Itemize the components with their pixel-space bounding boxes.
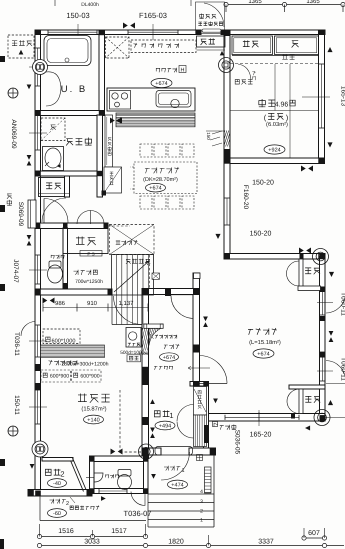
- svg-text:4: 4: [200, 489, 203, 495]
- washbasin faucet tri: [57, 164, 61, 168]
- window 150-11 office left: [37, 390, 39, 424]
- top dim circle 1: [224, 2, 228, 6]
- left window tick y270: [29, 269, 47, 271]
- bottom dim line upper: [40, 536, 146, 538]
- label toilet1: [51, 255, 64, 259]
- lower dim circle 145.5: [143, 543, 147, 547]
- label genkan2: [45, 469, 60, 476]
- scan edge mark 3: [0, 284, 5, 291]
- label tobukuro: [235, 80, 252, 85]
- svg-text:S036-05: S036-05: [234, 430, 241, 455]
- wall post 17: [99, 110, 105, 115]
- round post living SE: [314, 410, 330, 426]
- label jiita: [282, 54, 294, 59]
- svg-text:+674: +674: [149, 186, 161, 192]
- wall post 25: [165, 289, 171, 296]
- window AN069-09 washroom left end tick b: [35, 149, 40, 151]
- porch step 3: [148, 510, 214, 512]
- wall post 24: [63, 283, 68, 290]
- level oval hall +674: [160, 353, 179, 361]
- svg-text:+674: +674: [155, 81, 167, 87]
- stair treads lower flight: [117, 295, 149, 325]
- left window tick y133: [29, 132, 47, 134]
- svg-text:T036-11: T036-11: [13, 332, 20, 356]
- corridor-toilet1 wall: [35, 223, 108, 229]
- tri genkan2: [30, 464, 35, 469]
- left window tick y341: [29, 340, 47, 342]
- wall post 3: [196, 30, 201, 35]
- window S036-05 living south end tick b: [298, 415, 300, 420]
- svg-text:165-20: 165-20: [250, 432, 272, 439]
- lower dim circle 39.5: [37, 543, 41, 547]
- genkan shoe cabinet striped: [194, 415, 207, 447]
- office dim pair arrows: [43, 298, 55, 304]
- toilet2 north wall: [90, 456, 149, 462]
- dog zone diagonals: [110, 225, 155, 255]
- cupboard dashed outline: [131, 40, 196, 53]
- pair arrows washitsu south: [301, 166, 313, 172]
- sliding door band washroom-dining: [105, 115, 113, 167]
- wall post 20: [35, 223, 40, 229]
- gas meter symbol top: [33, 60, 48, 75]
- bath east wall: [99, 30, 105, 115]
- office dim tick 108: [107, 304, 109, 312]
- wall post 23: [35, 289, 41, 295]
- office north wall west part: [36, 289, 112, 295]
- solid wall chunk office-genkan: [142, 417, 149, 425]
- office counter hatched band: [41, 345, 105, 358]
- top window tick a: [77, 24, 79, 40]
- tri genkan1 c: [150, 433, 155, 438]
- genkan south wall east: [189, 448, 216, 455]
- scan edge mark 2: [0, 205, 5, 212]
- tri toilet1 left a: [27, 235, 32, 240]
- toilet2 east wall: [144, 456, 149, 494]
- bath door fold: [46, 72, 61, 106]
- wall post 14: [320, 316, 326, 321]
- wall post 2: [99, 30, 105, 35]
- wall post 15: [320, 352, 326, 358]
- tri monoire BR right: [328, 400, 333, 405]
- svg-text:910: 910: [87, 300, 98, 307]
- small sq porch: [197, 455, 203, 461]
- label jo: [290, 100, 295, 106]
- label toko: [292, 41, 299, 48]
- monoire1 bottom line: [39, 193, 70, 195]
- tri hall wall a: [203, 317, 208, 322]
- svg-text:1517: 1517: [111, 528, 127, 535]
- window bath left end tick b: [35, 85, 40, 87]
- wall post 34: [224, 149, 230, 159]
- window 150-11 office left end tick a: [35, 389, 40, 391]
- label genkan1: [154, 410, 169, 417]
- vent fan circle office: [8, 426, 18, 436]
- office dim tick 43: [42, 304, 44, 312]
- shuno2 box: [63, 229, 108, 254]
- tri monoire TR right: [329, 272, 334, 277]
- label desk1 tsukue: [46, 337, 50, 342]
- window F165-03 kitchen top end tick a: [127, 30, 129, 35]
- washroom east wall: [97, 115, 103, 197]
- wall post 5: [224, 30, 230, 36]
- genkan east wall: [204, 386, 209, 452]
- lower dim circle 324.5: [322, 543, 326, 547]
- label monoire1: [46, 183, 61, 189]
- top tick a: [54, 0, 56, 6]
- level oval porch1 +474: [168, 480, 188, 489]
- 607 circle b: [322, 536, 326, 540]
- living north wall: [224, 254, 325, 260]
- top dim circle 3: [341, 2, 345, 6]
- svg-text:4.96: 4.96: [275, 102, 289, 109]
- tatami line v2: [274, 64, 276, 111]
- svg-text:150-11: 150-11: [13, 395, 20, 415]
- solid chunk hall wall: [194, 345, 200, 353]
- label monoire BR: [305, 396, 320, 402]
- label onsuiki: [12, 40, 32, 46]
- wall post 22: [104, 223, 109, 229]
- label porch1: [164, 466, 180, 471]
- tri genkan1 a: [150, 399, 155, 404]
- window F165-03 kitchen top: [128, 31, 178, 33]
- label porch2: [50, 499, 66, 504]
- level oval dining +674: [146, 183, 166, 192]
- desk dashed 600x900 a: [41, 370, 71, 382]
- svg-text:3: 3: [200, 499, 203, 505]
- tri genkan cab: [213, 399, 218, 404]
- label pipe space: [74, 270, 98, 275]
- washroom south wall: [35, 171, 103, 176]
- terrace door T036-11 office left end tick b: [35, 356, 40, 358]
- label washing mark: [50, 125, 55, 130]
- riser 208.5: [208, 535, 210, 546]
- wall post 16: [35, 110, 41, 115]
- monoire1 door arc: [42, 198, 66, 222]
- meter symbol genkan2: [32, 441, 48, 457]
- level oval kitchen +674: [151, 78, 172, 87]
- refrigerator dashed box: [106, 37, 130, 58]
- wall post 43: [210, 448, 216, 455]
- label kitchen: [156, 68, 176, 73]
- stair lower left edge: [111, 295, 113, 325]
- window bath left end tick a: [35, 47, 40, 49]
- shuno2 bottom marks: [80, 251, 102, 257]
- label monoire TR: [305, 268, 320, 274]
- tri near F160 window: [215, 234, 220, 239]
- tri living south left: [305, 425, 310, 430]
- kitchen sink: [156, 91, 191, 108]
- window S036-05 living south: [225, 416, 299, 418]
- arc lower T060-11: [326, 361, 345, 381]
- office dim tick 148: [147, 304, 149, 312]
- wall post 41: [87, 489, 93, 496]
- wall post 27: [36, 383, 41, 390]
- svg-text:150: 150: [206, 132, 211, 140]
- round post genkan SW: [139, 444, 154, 459]
- porch1 right edge: [213, 450, 215, 527]
- toilet2 door arc: [131, 492, 145, 506]
- kon-pillar tiny box: [213, 422, 218, 427]
- washitsu west wall: [224, 30, 230, 258]
- label office counter a: [49, 360, 77, 365]
- label hall: [164, 344, 179, 349]
- svg-text:T036-07: T036-07: [124, 509, 152, 518]
- svg-text:(15.87m²): (15.87m²): [81, 406, 106, 413]
- dim leader 150: [206, 130, 224, 132]
- stair lower bottom edge: [112, 324, 142, 326]
- window F160-20 washitsu west end tick b: [224, 224, 229, 226]
- wall post 29: [142, 288, 149, 295]
- H mark kitchen: [179, 66, 186, 74]
- window F160-20 washitsu west end tick a: [224, 197, 229, 199]
- svg-text:165-13: 165-13: [340, 86, 345, 107]
- genkan shoe cabinet upper box: [194, 387, 207, 416]
- kon leader: [214, 423, 218, 427]
- office-hall divider wall: [142, 289, 149, 459]
- wall post 35: [224, 30, 230, 36]
- label demado: [7, 194, 12, 206]
- dining bench dashes: [130, 167, 134, 189]
- bathtub: [44, 36, 91, 66]
- shoe cab door arc top: [177, 405, 194, 422]
- window S036-05 living south end tick a: [224, 415, 226, 420]
- hall-living wall: [193, 273, 200, 385]
- window AN069-09 washroom left: [37, 115, 39, 150]
- porch2 bottom edge: [40, 520, 146, 522]
- toilet2 west wall: [90, 456, 95, 494]
- svg-text:T060-11: T060-11: [340, 292, 345, 316]
- svg-text:H: H: [181, 67, 185, 73]
- pair arrows toilet2 top: [111, 449, 123, 455]
- terrace door T036-11 office left: [37, 325, 39, 357]
- monoire TR bottom wall: [298, 286, 321, 291]
- monoire1 box: [39, 178, 70, 197]
- svg-text:150-20: 150-20: [252, 180, 274, 187]
- svg-text:600*1000: 600*1000: [52, 339, 76, 345]
- level oval office +140: [84, 415, 104, 424]
- tri toilet2: [101, 496, 106, 501]
- tri below onsuiki: [19, 50, 24, 55]
- label cupboard: [133, 43, 178, 48]
- svg-text:1820: 1820: [168, 539, 184, 546]
- door hall-living arc: [200, 356, 228, 384]
- genkan2 top wall: [42, 458, 73, 462]
- counter table hatched: [116, 113, 195, 127]
- terrace door arc office left: [21, 322, 36, 337]
- svg-text:-60: -60: [53, 511, 61, 517]
- top dim circle 2: [282, 2, 286, 6]
- 607 riser a: [303, 528, 305, 538]
- wall post 32: [193, 381, 200, 386]
- window F165-03 kitchen top end tick b: [177, 30, 179, 35]
- 607 riser b: [324, 528, 326, 538]
- washing machine diagonal: [41, 118, 65, 141]
- label senmenjo: [66, 138, 91, 146]
- svg-text:F165-03: F165-03: [139, 11, 167, 20]
- level oval porch2 -60: [48, 509, 67, 518]
- terrace door T060-11 lower living right: [321, 352, 323, 381]
- tokonoma inner: [276, 38, 316, 53]
- svg-text:+674: +674: [163, 355, 175, 361]
- solid post living south: [291, 414, 295, 419]
- pair arrows counter: [109, 118, 121, 124]
- dining chairs dashed: [140, 144, 194, 209]
- hatched wall segment washitsu west: [218, 131, 236, 147]
- backdoor sill bar: [202, 29, 221, 32]
- top dim line: [226, 4, 343, 6]
- tatami line h: [230, 110, 319, 112]
- label katteguchi sub: [198, 22, 222, 26]
- stair treads: [117, 255, 149, 296]
- svg-text:3337: 3337: [258, 539, 274, 546]
- svg-text:1: 1: [181, 468, 184, 474]
- hatch marks left of wall: [210, 131, 222, 146]
- round post kitchen-washitsu: [219, 58, 234, 73]
- tri washroom left a: [27, 155, 32, 160]
- scan edge mark 4: [0, 459, 5, 466]
- window J074-07 toilet1 left end tick a: [35, 254, 40, 256]
- label shuno2: [76, 236, 96, 245]
- washitsu south wall: [224, 158, 325, 164]
- backdoor vestibule outline: [196, 2, 225, 34]
- solid wall chunk genkan east: [204, 425, 209, 443]
- terrace door T060-11 upper living right end tick b: [320, 314, 325, 316]
- backdoor katteguchi arc: [204, 3, 224, 27]
- scan edge mark 1: [0, 56, 5, 62]
- top tick b: [190, 0, 192, 6]
- svg-text:700w*1250h: 700w*1250h: [75, 279, 103, 285]
- svg-text:2: 2: [200, 509, 203, 515]
- wall post 31: [142, 367, 149, 385]
- washing machine dashed: [41, 118, 65, 141]
- porch step 2: [148, 502, 214, 504]
- svg-text:+140: +140: [87, 417, 99, 423]
- window AN069-09 washroom left end tick a: [35, 114, 40, 116]
- ext line monoire BR: [326, 383, 345, 385]
- scan edge mark 5: [0, 539, 4, 549]
- svg-text:S069-09: S069-09: [17, 202, 24, 227]
- corridor dashed opening: [108, 225, 130, 227]
- window 165-13 washitsu right end tick b: [319, 127, 324, 129]
- pair arrows top wall: [123, 23, 135, 29]
- lower dim circle 208.5: [206, 543, 210, 547]
- porch step 4: [148, 519, 214, 521]
- closet bottom wall: [232, 55, 319, 57]
- svg-text:DL400h: DL400h: [81, 2, 99, 8]
- slide arrow hall-living: [188, 366, 210, 370]
- porch left edge: [147, 455, 149, 527]
- top dim riser 1: [225, 5, 227, 13]
- store sash leader: [70, 497, 75, 503]
- window 165-13 washitsu right end tick a: [319, 63, 324, 65]
- stairs box: [112, 255, 154, 296]
- window 150-03 bath top end tick a: [47, 30, 49, 35]
- label hall counter: [155, 335, 177, 339]
- wall post 6: [318, 30, 324, 35]
- label toilet2: [106, 474, 119, 478]
- wall post 1: [35, 30, 41, 35]
- svg-text:150-03: 150-03: [66, 11, 89, 20]
- tatami line v: [289, 64, 291, 158]
- wall post 19: [97, 171, 103, 176]
- wall post 26: [36, 364, 41, 371]
- svg-text:J074-07: J074-07: [12, 259, 19, 283]
- riser 92.5: [92, 530, 94, 537]
- office dim line: [43, 307, 148, 309]
- window F160-20 washitsu west: [226, 198, 228, 225]
- front door arc: [161, 452, 190, 480]
- window toilet2 bottom end tick a: [98, 488, 100, 493]
- svg-text:(L=15.18m²): (L=15.18m²): [249, 339, 281, 346]
- washitsu entry curve: [238, 64, 251, 80]
- toilet1 bowl: [48, 261, 63, 283]
- svg-text:AN069-09: AN069-09: [10, 119, 17, 149]
- wall post 28: [108, 289, 113, 295]
- window 150-03 bath top: [48, 31, 97, 33]
- label doma: [201, 38, 215, 45]
- wall post 36: [89, 456, 94, 462]
- refrigerator X: [106, 37, 130, 58]
- tri bath left a: [27, 85, 32, 90]
- svg-text:1: 1: [169, 411, 173, 420]
- svg-text:-1800w+300d+1200h: -1800w+300d+1200h: [59, 362, 108, 368]
- genkan entrance step: [155, 447, 193, 456]
- door hall-living leaf: [200, 383, 228, 385]
- wall post 18: [35, 171, 41, 176]
- closet oshiire box: [232, 36, 273, 55]
- monoire TR door arc top: [287, 261, 300, 274]
- office north wall east part: [142, 289, 199, 295]
- svg-text:+494: +494: [159, 423, 171, 429]
- toilet2 south wall: [90, 489, 149, 494]
- svg-text:1365: 1365: [306, 0, 320, 5]
- stair bottom door arc: [114, 296, 142, 325]
- window bath left: [37, 48, 39, 86]
- wall post 7: [224, 158, 230, 164]
- svg-text:-40: -40: [53, 481, 61, 487]
- door dining-hall leaf: [171, 294, 194, 296]
- riser 145.5: [145, 524, 147, 537]
- toilet2 corner basin: [86, 473, 103, 482]
- svg-text:+924: +924: [268, 147, 280, 153]
- svg-text:150-20: 150-20: [250, 231, 272, 238]
- office dim tick 77: [76, 304, 78, 312]
- outer wall top-right segment: [221, 30, 325, 35]
- hall counter bar: [144, 324, 163, 328]
- jiita dashed line: [230, 63, 319, 65]
- window 165-13 washitsu right: [321, 64, 323, 128]
- upper dim circle 39.5: [37, 534, 41, 538]
- monoire BR left wall: [299, 389, 303, 414]
- wall post 42: [35, 491, 41, 497]
- svg-text:P S: P S: [87, 251, 94, 256]
- svg-text:T060-11: T060-11: [340, 357, 345, 381]
- tiny vertical text mirror box: [110, 172, 114, 185]
- bath south wall: [35, 111, 105, 116]
- tokonoma box: [275, 36, 319, 55]
- porch step 1: [148, 493, 214, 495]
- stair arrow: [114, 261, 149, 292]
- monoire BR door arc top: [287, 389, 299, 402]
- hatched wall segment hall: [136, 328, 154, 351]
- porch2 left edge: [39, 496, 41, 521]
- outer wall top-left segment: [35, 30, 201, 35]
- wall post 11: [320, 415, 326, 421]
- store partition dashed v: [119, 390, 121, 452]
- riser 39.5: [39, 524, 41, 537]
- top dim riser 2: [284, 5, 286, 13]
- toilet1 door arc: [44, 199, 68, 223]
